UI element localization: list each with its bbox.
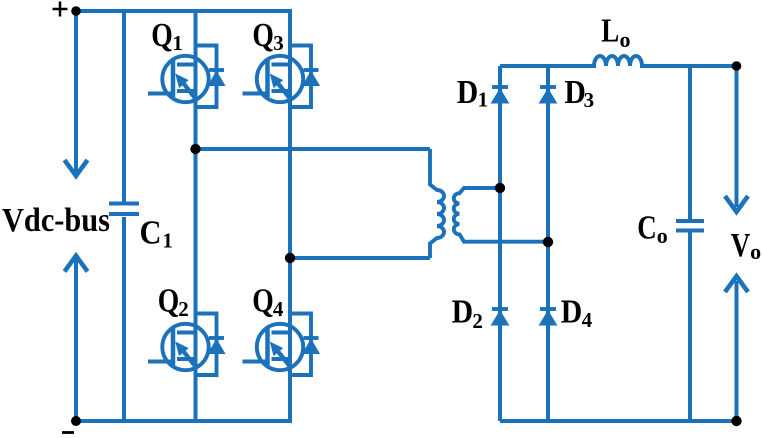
transformer secondary winding	[454, 188, 548, 242]
wire Vo arrow shaft bottom	[735, 281, 739, 421]
svg-text:D: D	[452, 293, 474, 330]
svg-text:4: 4	[273, 297, 284, 321]
junction node secondary top	[495, 183, 505, 193]
junction node B (Q3-Q4 midpoint)	[285, 253, 295, 263]
capacitor C1 leg top	[122, 11, 126, 202]
junction node output +	[732, 61, 742, 71]
body diode of Q3	[290, 46, 319, 108]
capacitor Co plates	[676, 221, 704, 231]
svg-text:Q: Q	[252, 17, 274, 54]
plus sign	[53, 2, 68, 17]
svg-text:4: 4	[582, 308, 593, 332]
svg-text:2: 2	[472, 309, 483, 333]
arrowhead Vdc-bus down	[65, 160, 88, 176]
capacitor C1 plates	[109, 204, 139, 215]
diode D3	[540, 87, 557, 103]
arrowhead Vo up	[725, 276, 748, 292]
body diode of Q4	[290, 314, 319, 376]
wire top-right rail with inductor Lo	[500, 56, 737, 66]
capacitor C1 leg bottom	[122, 217, 126, 421]
transistor Q4 (MOSFET)	[243, 324, 304, 370]
svg-text:o: o	[657, 223, 668, 248]
svg-text:Q: Q	[158, 283, 180, 320]
wire top rail / right bridge leg / bottom-left rail	[76, 11, 290, 421]
junction node output -	[731, 416, 741, 426]
junction node A (Q1-Q2 midpoint)	[190, 144, 200, 154]
diode D1	[492, 87, 509, 103]
wire Vo arrow shaft top	[735, 66, 739, 207]
svg-text:1: 1	[478, 88, 489, 112]
svg-text:Q: Q	[151, 17, 173, 54]
svg-text:D: D	[457, 74, 479, 111]
wire secondary rectifier left leg D1-D2	[498, 66, 502, 421]
junction node dc bus +	[71, 6, 81, 16]
svg-text:o: o	[750, 239, 761, 264]
body diode of Q1	[196, 46, 225, 108]
svg-text:3: 3	[273, 31, 284, 55]
svg-text:2: 2	[178, 297, 189, 321]
wire Vdc-bus arrow shaft bottom	[74, 259, 78, 421]
minus sign	[62, 431, 74, 434]
transformer primary winding	[430, 149, 444, 258]
diode D4	[540, 309, 557, 325]
arrowhead Vo down	[725, 196, 748, 212]
wire secondary rectifier right leg D3-D4	[546, 66, 550, 421]
svg-text:1: 1	[172, 31, 183, 55]
svg-text:D: D	[561, 293, 583, 330]
junction node secondary bottom	[543, 237, 553, 247]
wire node B to transformer primary bottom	[290, 256, 430, 260]
transistor Q2 (MOSFET)	[148, 324, 209, 370]
wire bottom-right rail	[500, 419, 737, 423]
svg-text:Vdc-bus: Vdc-bus	[2, 202, 110, 239]
svg-text:Q: Q	[252, 283, 273, 320]
svg-text:o: o	[620, 27, 631, 52]
svg-text:1: 1	[162, 228, 173, 252]
diode D2	[492, 309, 509, 325]
transistor Q1 (MOSFET)	[148, 56, 209, 102]
body diode of Q2	[196, 314, 225, 376]
capacitor Co leg bottom	[688, 233, 692, 422]
svg-text:C: C	[637, 210, 657, 247]
transistor Q3 (MOSFET)	[243, 56, 304, 102]
svg-text:L: L	[601, 12, 619, 49]
wire node A to transformer primary top	[196, 147, 431, 151]
svg-text:3: 3	[584, 88, 595, 112]
wire left bridge leg (Q1-Q2)	[194, 11, 198, 421]
svg-text:C: C	[140, 214, 162, 251]
capacitor Co leg top	[688, 66, 692, 219]
svg-text:V: V	[731, 227, 751, 264]
arrowhead Vdc-bus up	[65, 256, 88, 272]
junction node dc bus -	[71, 416, 81, 426]
wire Vdc-bus arrow shaft top	[74, 11, 78, 172]
